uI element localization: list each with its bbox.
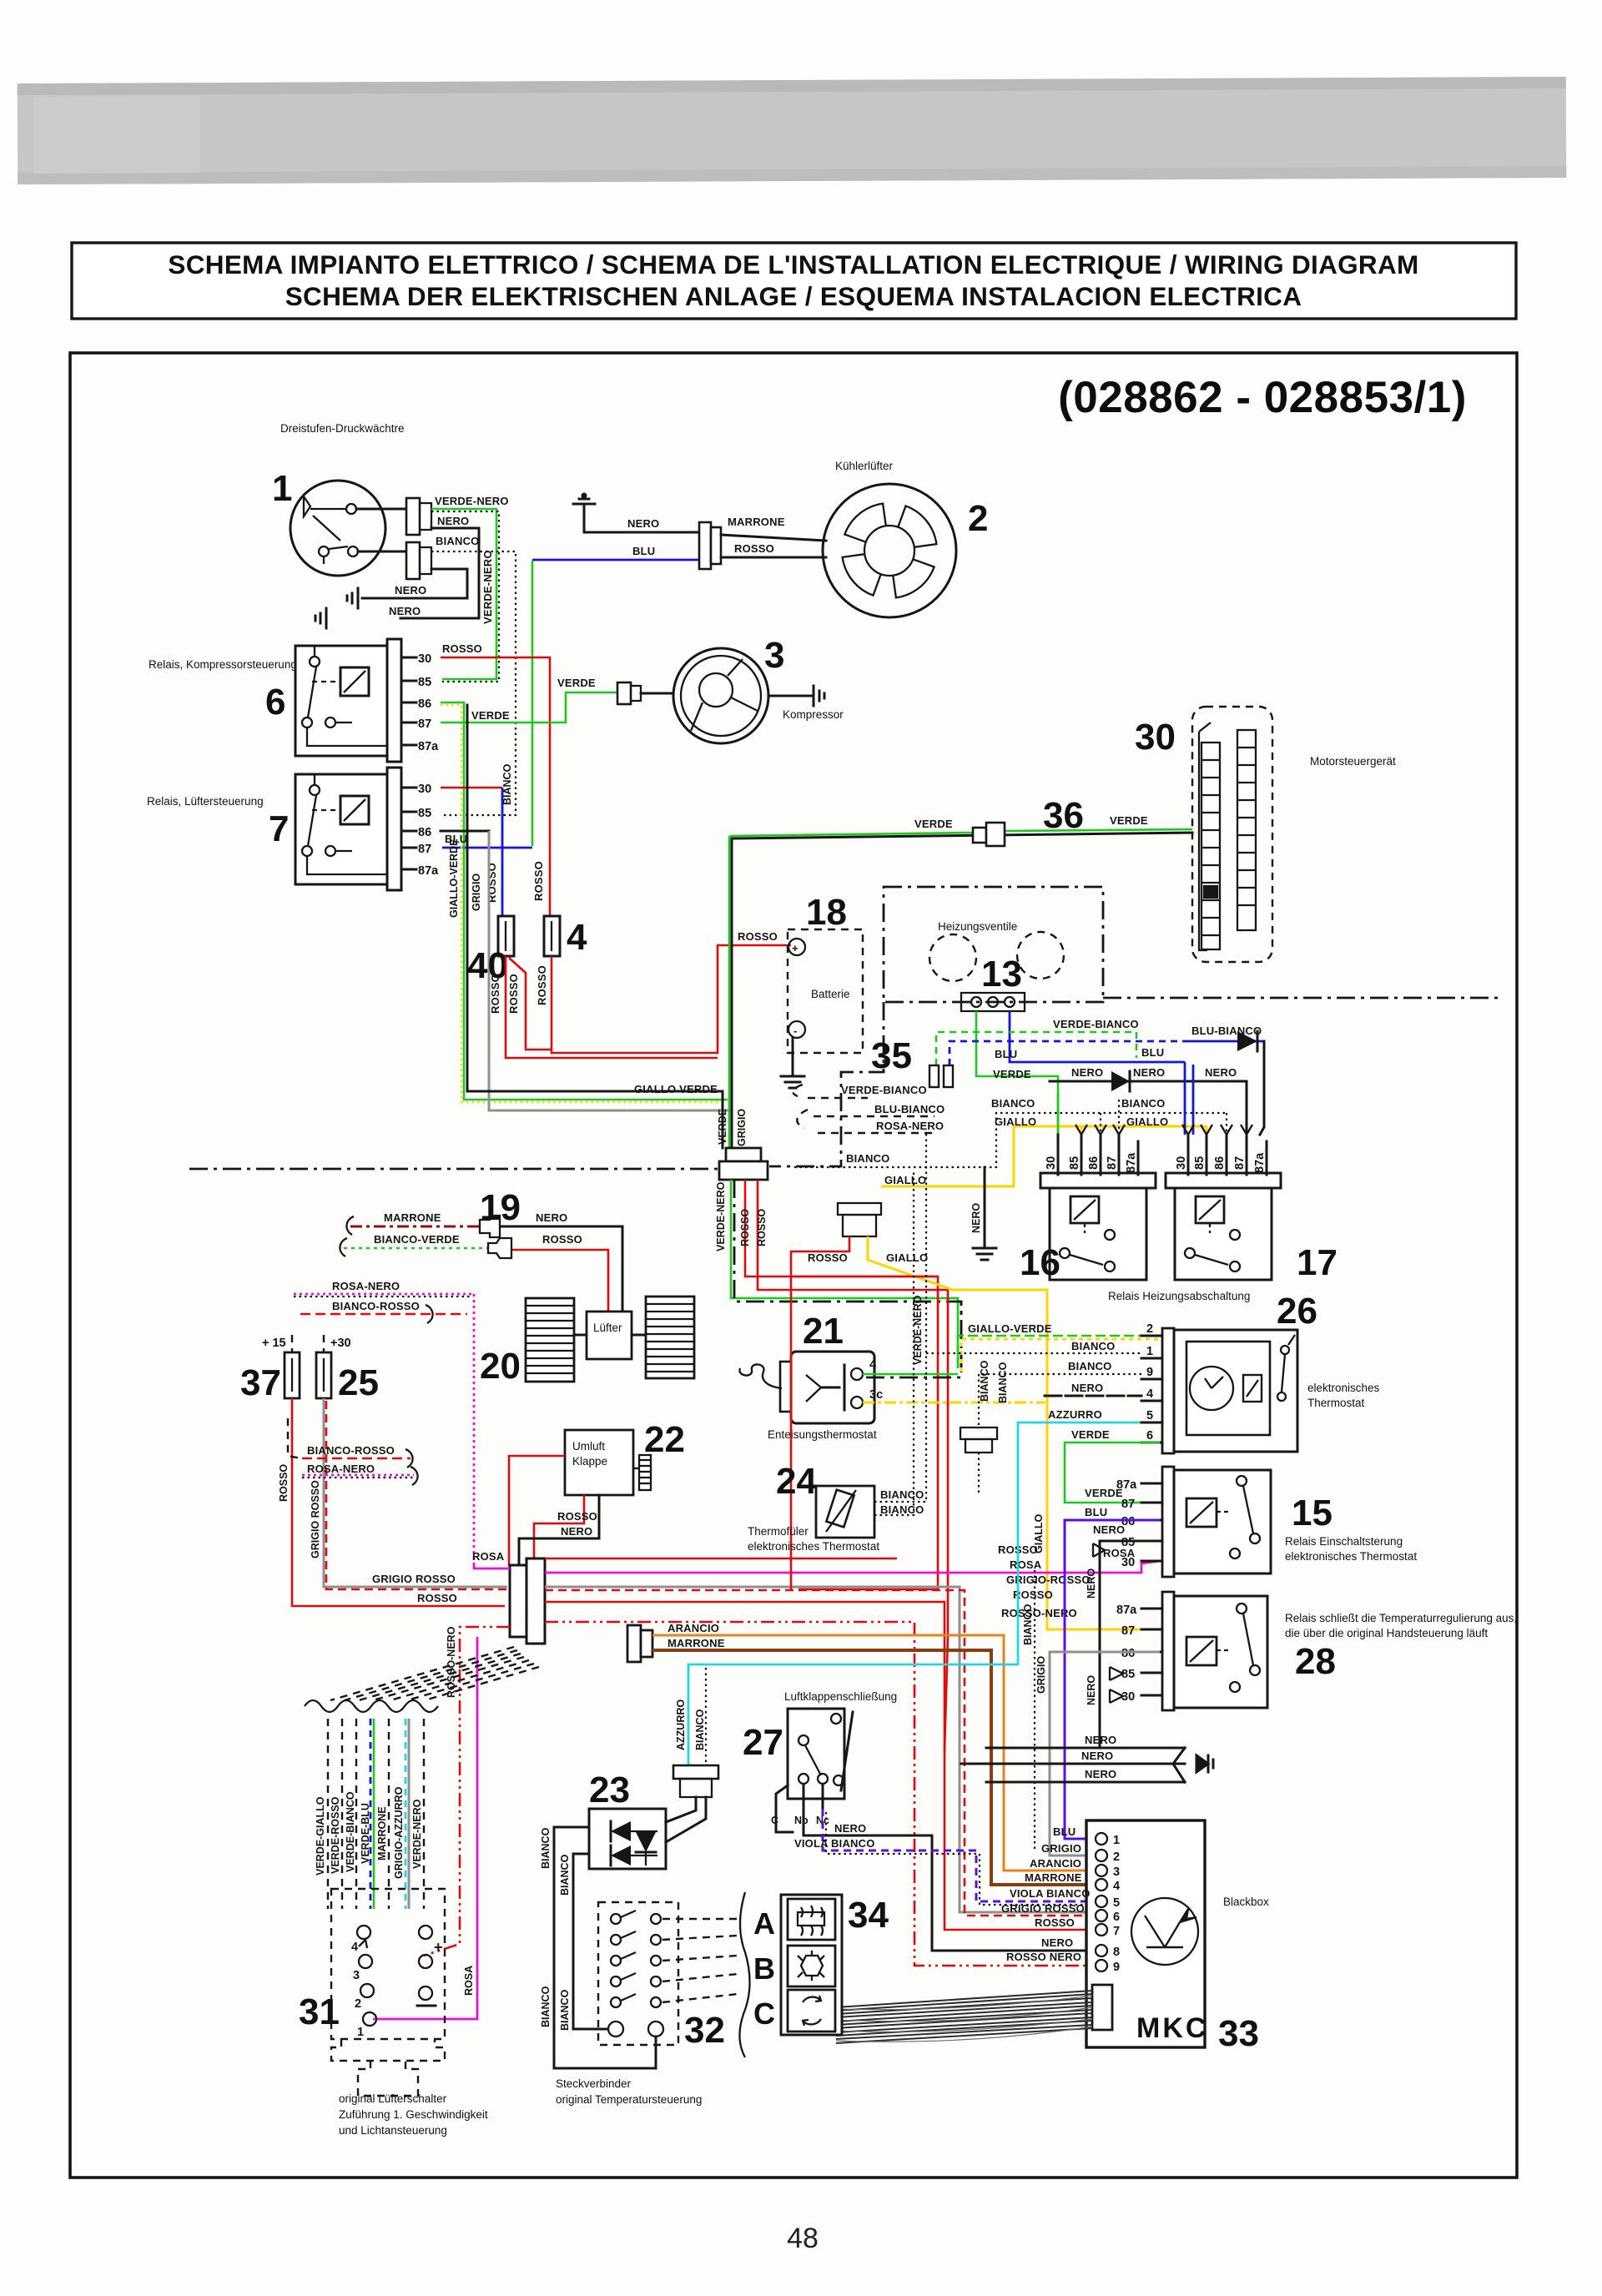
svg-text:ROSSO NERO: ROSSO NERO xyxy=(1006,1951,1081,1963)
svg-text:Relais Einschaltsterung: Relais Einschaltsterung xyxy=(1285,1535,1403,1548)
relay16 pin stubs xyxy=(1058,1135,1138,1175)
svg-text:VERDE-NERO: VERDE-NERO xyxy=(481,550,494,624)
svg-text:4: 4 xyxy=(1113,1880,1120,1893)
svg-text:NERO: NERO xyxy=(1085,1768,1116,1780)
svg-text:ROSSO: ROSSO xyxy=(278,1464,290,1502)
gear (22) xyxy=(633,1455,651,1490)
svg-text:85: 85 xyxy=(1193,1156,1207,1170)
buttons 34 outer xyxy=(781,1895,842,2035)
svg-text:35: 35 xyxy=(871,1035,912,1076)
wire arancio xyxy=(652,1635,1086,1871)
svg-text:GRIGIO: GRIGIO xyxy=(736,1109,748,1146)
svg-text:ROSA: ROSA xyxy=(472,1550,505,1563)
svg-text:18: 18 xyxy=(806,892,847,933)
svg-text:AZZURRO: AZZURRO xyxy=(1048,1408,1102,1421)
connector 19a xyxy=(480,1216,500,1237)
svg-text:A: A xyxy=(753,1906,775,1941)
svg-text:original Lüfterschalter: original Lüfterschalter xyxy=(339,2092,447,2105)
wire nero ground drop xyxy=(984,1167,986,1238)
svg-text:31: 31 xyxy=(299,1991,340,2032)
relay 15 xyxy=(1162,1467,1271,1577)
svg-text:C: C xyxy=(753,1996,775,2031)
relay 16 xyxy=(1040,1173,1156,1280)
svg-text:BLU: BLU xyxy=(1053,1825,1076,1838)
svg-text:87: 87 xyxy=(1121,1498,1135,1511)
svg-text:VERDE-NERO: VERDE-NERO xyxy=(411,1799,423,1869)
svg-text:GIALLO VERDE: GIALLO VERDE xyxy=(634,1083,718,1095)
svg-text:28: 28 xyxy=(1295,1641,1336,1682)
svg-text:VERDE-BIANCO: VERDE-BIANCO xyxy=(841,1084,927,1096)
svg-text:MARRONE: MARRONE xyxy=(1025,1871,1082,1884)
electronic thermostat 26 xyxy=(1162,1328,1297,1453)
blower 20 right cylinder xyxy=(646,1297,694,1378)
wire blu from valve pin3 xyxy=(1010,1011,1185,1062)
wire nero from relay28 85 drop xyxy=(1099,1715,1101,1748)
pressure switch 1 xyxy=(272,468,385,576)
connector block upper (comp1) xyxy=(406,498,420,535)
wire bianco dotted vertical mid xyxy=(1034,1570,1035,1850)
svg-text:GIALLO: GIALLO xyxy=(1033,1514,1045,1553)
svg-text:7: 7 xyxy=(269,808,289,849)
svg-text:9: 9 xyxy=(1146,1366,1153,1379)
svg-text:2: 2 xyxy=(1113,1850,1120,1864)
svg-text:VERDE: VERDE xyxy=(557,677,596,689)
svg-text:NERO: NERO xyxy=(1093,1523,1125,1536)
svg-text:87a: 87a xyxy=(1253,1152,1267,1173)
svg-text:BIANCO: BIANCO xyxy=(559,1854,571,1896)
svg-text:NERO: NERO xyxy=(437,515,469,527)
svg-text:48: 48 xyxy=(787,2223,819,2254)
svg-text:BLU: BLU xyxy=(995,1048,1017,1060)
svg-text:1: 1 xyxy=(357,2026,364,2039)
svg-text:original Temperatursteuerung: original Temperatursteuerung xyxy=(556,2093,702,2106)
svg-text:ROSSO: ROSSO xyxy=(542,1233,582,1246)
svg-text:7: 7 xyxy=(1113,1925,1120,1938)
fuse 35b xyxy=(944,1065,953,1087)
svg-text:86: 86 xyxy=(1087,1156,1101,1170)
svg-text:NERO: NERO xyxy=(627,517,659,530)
svg-text:Batterie: Batterie xyxy=(811,988,850,1000)
svg-text:85: 85 xyxy=(1068,1156,1081,1170)
wire azzurro long xyxy=(688,1422,1160,1765)
wire rosso 2 xyxy=(545,1602,1086,1930)
wire rosso top xyxy=(545,1558,897,1560)
svg-text:27: 27 xyxy=(743,1722,783,1763)
wire rosso from 19 to blower xyxy=(512,1250,608,1312)
wire rosso from connector xyxy=(791,1236,849,1276)
svg-text:ROSSO: ROSSO xyxy=(507,974,520,1014)
svg-text:3: 3 xyxy=(1113,1865,1120,1879)
svg-text:ROSSO: ROSSO xyxy=(442,642,482,655)
fan connector xyxy=(699,522,711,569)
svg-text:VERDE-GIALLO: VERDE-GIALLO xyxy=(315,1796,326,1876)
bundle wire verde-blu xyxy=(370,1719,374,1909)
svg-text:Luftklappenschließung: Luftklappenschließung xyxy=(784,1690,897,1703)
wire nero comp1 down to ground xyxy=(400,528,479,618)
relay 7 pins xyxy=(401,788,416,869)
svg-text:BIANCO: BIANCO xyxy=(979,1360,990,1402)
svg-text:BLU-BIANCO: BLU-BIANCO xyxy=(874,1103,945,1115)
wires rosso below fuses xyxy=(506,956,718,1058)
svg-text:21: 21 xyxy=(803,1311,844,1352)
svg-text:ARANCIO: ARANCIO xyxy=(667,1622,719,1634)
diode block 23 xyxy=(589,1809,666,1869)
wire bianco dotted to 26 pin9 xyxy=(979,1374,1141,1427)
svg-text:3c: 3c xyxy=(869,1388,883,1402)
svg-text:3: 3 xyxy=(764,635,784,676)
svg-text:1: 1 xyxy=(1146,1345,1153,1358)
relay16 pin labels xyxy=(1045,1152,1138,1173)
wire nero from 27 xyxy=(804,1809,1086,1951)
svg-text:BIANCO: BIANCO xyxy=(880,1488,924,1501)
chevron stubs relay28 xyxy=(1110,1667,1123,1680)
svg-text:30: 30 xyxy=(418,783,431,796)
MKC ribbon connector xyxy=(1092,1985,1112,2030)
wire verde-nero comp1 to relay6 pin85 xyxy=(431,509,496,679)
svg-text:+: + xyxy=(792,942,798,954)
svg-text:36: 36 xyxy=(1043,795,1084,836)
svg-text:ROSSO: ROSSO xyxy=(738,930,778,943)
svg-text:ARANCIO: ARANCIO xyxy=(1030,1857,1081,1870)
wire rosso frame around 21 xyxy=(791,1276,938,1278)
svg-text:87: 87 xyxy=(1106,1156,1119,1170)
svg-text:22: 22 xyxy=(644,1419,685,1460)
svg-text:NERO: NERO xyxy=(561,1525,592,1538)
svg-text:VERDE: VERDE xyxy=(1110,814,1148,827)
battery plus terminal xyxy=(788,939,805,955)
svg-text:87a: 87a xyxy=(1116,1604,1137,1617)
svg-text:BIANCO: BIANCO xyxy=(991,1097,1035,1110)
svg-text:1: 1 xyxy=(272,468,292,509)
svg-text:Dreistufen-Druckwächtre: Dreistufen-Druckwächtre xyxy=(280,422,405,435)
small connector (arancio/marrone) xyxy=(627,1625,652,1662)
svg-text:BIANCO: BIANCO xyxy=(1022,1604,1034,1645)
svg-text:BIANCO: BIANCO xyxy=(540,1986,552,2027)
svg-text:SCHEMA DER ELEKTRISCHEN ANLAGE: SCHEMA DER ELEKTRISCHEN ANLAGE / ESQUEMA… xyxy=(285,281,1302,311)
svg-text:GRIGIO ROSSO: GRIGIO ROSSO xyxy=(1001,1902,1085,1915)
big connector (bulkhead) xyxy=(510,1558,545,1644)
svg-text:C: C xyxy=(771,1815,778,1826)
bundle wavy brace xyxy=(305,1700,438,1712)
svg-text:NERO: NERO xyxy=(389,605,421,617)
svg-text:87a: 87a xyxy=(1116,1478,1137,1492)
svg-text:26: 26 xyxy=(1277,1291,1317,1332)
svg-text:ROSA: ROSA xyxy=(463,1966,475,1996)
svg-text:GIALLO-VERDE: GIALLO-VERDE xyxy=(968,1322,1052,1335)
svg-text:ROSSO: ROSSO xyxy=(417,1592,457,1604)
svg-text:GRIGIO: GRIGIO xyxy=(1035,1656,1047,1694)
svg-text:GIALLO: GIALLO xyxy=(1126,1115,1168,1128)
component 24 xyxy=(816,1486,874,1538)
brace right of 32 xyxy=(739,1892,749,2057)
battery ground xyxy=(781,1038,804,1088)
svg-text:Relais Heizungsabschaltung: Relais Heizungsabschaltung xyxy=(1108,1290,1250,1302)
svg-text:VERDE-NERO: VERDE-NERO xyxy=(435,495,509,507)
svg-text:BIANCO: BIANCO xyxy=(1068,1360,1111,1372)
wire nero to 26 pin4 xyxy=(1045,1395,1141,1397)
svg-text:ROSA: ROSA xyxy=(1010,1558,1042,1571)
svg-text:Relais, Lüftersteuerung: Relais, Lüftersteuerung xyxy=(147,795,264,808)
main diagram border xyxy=(70,353,1517,2178)
svg-text:MARRONE: MARRONE xyxy=(384,1211,441,1224)
wire viola bianco dashed xyxy=(823,1809,1086,1901)
svg-text:2: 2 xyxy=(355,1997,361,2011)
svg-text:3: 3 xyxy=(353,1969,360,1982)
heater valve left circle xyxy=(929,934,976,981)
ECU connector 30 xyxy=(1192,707,1272,962)
bundle wire verde-giallo xyxy=(327,1719,329,1909)
svg-text:6: 6 xyxy=(1146,1429,1153,1443)
svg-text:und Lichtansteuerung: und Lichtansteuerung xyxy=(339,2124,447,2137)
26 pin 5 xyxy=(1141,1422,1162,1424)
svg-text:+ 15: + 15 xyxy=(262,1337,286,1350)
svg-text:23: 23 xyxy=(589,1770,630,1810)
svg-text:Blackbox: Blackbox xyxy=(1223,1896,1269,1908)
button C square xyxy=(788,1990,835,2032)
wire nero triple to arrow xyxy=(961,1748,1213,1782)
svg-text:87a: 87a xyxy=(418,864,439,878)
wire rosso relay6 pin30 right xyxy=(441,657,550,916)
svg-text:Enteisungsthermostat: Enteisungsthermostat xyxy=(768,1428,877,1441)
wire 36-line corner down to grommet xyxy=(731,838,733,1150)
svg-text:ROSA: ROSA xyxy=(1103,1547,1136,1559)
wire verde from valve pin1 xyxy=(976,1011,1058,1136)
diode blu-bianco xyxy=(1237,1031,1264,1135)
wire giallo bus xyxy=(881,1126,1207,1186)
compressor connector xyxy=(617,682,631,704)
svg-text:B: B xyxy=(753,1951,775,1986)
fuse 25 xyxy=(316,1352,331,1398)
svg-text:GIALLO: GIALLO xyxy=(995,1115,1036,1128)
svg-text:87: 87 xyxy=(418,843,431,856)
bundle wire verde-bianco xyxy=(355,1719,357,1909)
azzurro connector above 23 xyxy=(666,1765,718,1842)
dashed stubs bianco-rosso / rosa-nero mid xyxy=(288,1418,418,1485)
svg-text:BIANCO: BIANCO xyxy=(540,1827,552,1869)
svg-text:GIALLO: GIALLO xyxy=(886,1251,928,1264)
svg-text:VERDE-BIANCO: VERDE-BIANCO xyxy=(1053,1018,1139,1030)
svg-text:Relais schließt die Temperatur: Relais schließt die Temperaturregulierun… xyxy=(1285,1612,1517,1624)
wire verde from 26 pin6 to relay15 xyxy=(1065,1443,1160,1503)
button A square xyxy=(788,1899,835,1940)
relay17 pin stubs xyxy=(1188,1135,1267,1175)
MKC transistor symbol xyxy=(1131,1898,1198,1965)
MKC blackbox 33 xyxy=(1086,1820,1205,2047)
svg-text:8: 8 xyxy=(1113,1946,1120,1959)
wire blu to fan connector xyxy=(532,559,699,561)
title box xyxy=(72,243,1516,319)
wire rosa into connector left xyxy=(474,1565,510,1568)
svg-text:Heizungsventile: Heizungsventile xyxy=(938,920,1017,933)
compressor 3 xyxy=(673,648,768,743)
wire verde relay6 pin87 to compressor xyxy=(441,692,617,723)
svg-text:4: 4 xyxy=(869,1358,876,1372)
wire rosa-nero dotted drop to connector xyxy=(473,1294,476,1565)
wire giallo-verde relay6 pin86 down xyxy=(441,702,728,1100)
36 inline connector xyxy=(973,828,986,843)
svg-text:86: 86 xyxy=(418,697,431,711)
svg-text:87: 87 xyxy=(1121,1624,1135,1638)
switch 31 outer dashed box xyxy=(331,1889,445,2039)
svg-text:ROSSO: ROSSO xyxy=(739,1209,751,1246)
svg-text:BIANCO: BIANCO xyxy=(846,1152,889,1165)
wire grigio relay7 pin86 down xyxy=(441,830,489,833)
svg-text:BLU: BLU xyxy=(1085,1506,1107,1518)
svg-text:Motorsteuergerät: Motorsteuergerät xyxy=(1310,755,1396,768)
svg-text:BIANCO-ROSSO: BIANCO-ROSSO xyxy=(332,1300,420,1312)
svg-text:VERDE: VERDE xyxy=(993,1068,1031,1080)
svg-text:6: 6 xyxy=(1113,1911,1120,1924)
svg-text:GRIGIO-AZZURRO: GRIGIO-AZZURRO xyxy=(393,1786,405,1879)
wire bianco dotted beside azzurro xyxy=(705,1668,707,1765)
svg-text:-: - xyxy=(793,1025,797,1037)
wire rosso to 22 xyxy=(509,1456,565,1566)
svg-text:6: 6 xyxy=(265,682,285,723)
svg-text:NERO: NERO xyxy=(1086,1675,1097,1705)
svg-text:(028862 - 028853/1): (028862 - 028853/1) xyxy=(1058,373,1467,422)
svg-text:GRIGIO ROSSO: GRIGIO ROSSO xyxy=(310,1480,321,1558)
svg-text:SCHEMA IMPIANTO ELETTRICO / SC: SCHEMA IMPIANTO ELETTRICO / SCHEMA DE L'… xyxy=(168,249,1418,279)
wire comp1 to connector xyxy=(356,508,406,511)
svg-text:ROSA-NERO: ROSA-NERO xyxy=(876,1120,944,1132)
svg-text:30: 30 xyxy=(1175,1156,1188,1170)
wires 23 to 32 bianco xyxy=(554,1827,656,2068)
svg-text:25: 25 xyxy=(338,1362,379,1403)
svg-text:Kühlerlüfter: Kühlerlüfter xyxy=(835,460,894,472)
svg-text:MARRONE: MARRONE xyxy=(667,1637,725,1649)
svg-text:86: 86 xyxy=(418,826,431,839)
radiator fan 2 xyxy=(823,484,956,617)
svg-text:Kompressor: Kompressor xyxy=(783,708,844,721)
pin dips relay17 xyxy=(1185,1062,1247,1135)
wire bianco dotted to 26 pin1 xyxy=(926,1352,1141,1354)
svg-text:ROSSO: ROSSO xyxy=(536,965,548,1005)
svg-text:VERDE-NERO: VERDE-NERO xyxy=(715,1181,727,1251)
wires connector to fan 2 xyxy=(721,535,826,541)
svg-text:BLU: BLU xyxy=(445,833,467,845)
svg-text:BIANCO: BIANCO xyxy=(880,1503,924,1516)
MKC pins xyxy=(1096,1833,1107,1971)
relay 6 xyxy=(295,639,401,762)
svg-text:4: 4 xyxy=(351,1941,358,1954)
battery minus terminal xyxy=(788,1021,805,1038)
wire blu relay7 pin87 xyxy=(442,847,532,849)
svg-text:85: 85 xyxy=(418,676,431,689)
svg-text:ROSSO: ROSSO xyxy=(489,974,501,1014)
svg-text:elektronisches: elektronisches xyxy=(1307,1382,1380,1394)
26 pin 4 xyxy=(1141,1400,1162,1402)
svg-text:ROSSO: ROSSO xyxy=(808,1251,848,1264)
svg-text:Klappe: Klappe xyxy=(572,1455,607,1468)
bundle wire grigio-azzurro xyxy=(406,1719,409,1909)
svg-text:34: 34 xyxy=(848,1895,889,1936)
svg-text:BLU: BLU xyxy=(632,545,655,557)
wire rosso-nero down-left xyxy=(424,1627,510,1956)
header gray bar xyxy=(18,77,1567,184)
wire nero to fan connector xyxy=(584,531,699,534)
svg-text:BIANCO: BIANCO xyxy=(1121,1097,1165,1110)
svg-text:AZZURRO: AZZURRO xyxy=(675,1699,687,1750)
wire black companion giallo-verde xyxy=(467,705,723,1148)
ground fan top xyxy=(573,494,595,532)
svg-text:30: 30 xyxy=(1045,1156,1058,1170)
svg-text:BLU: BLU xyxy=(1141,1046,1164,1059)
fuse 4 xyxy=(544,916,560,956)
wire marrone dashed to 19 xyxy=(346,1216,480,1235)
wire nero lower comp1 to ground xyxy=(362,569,467,598)
blower 20 left cylinder xyxy=(526,1298,574,1382)
svg-text:ROSSO: ROSSO xyxy=(734,542,774,555)
svg-text:15: 15 xyxy=(1292,1493,1332,1533)
wire bianco dotted from 24 xyxy=(874,1130,926,1502)
svg-text:9: 9 xyxy=(1113,1961,1120,1974)
ground 1 (comp1) xyxy=(347,588,358,608)
wire rosso from fuse37 down xyxy=(292,1398,505,1606)
svg-text:No: No xyxy=(794,1815,809,1826)
wire bianco dotted 2 from 24 xyxy=(874,1170,914,1515)
ground (nero bus) xyxy=(973,1238,996,1260)
svg-text:20: 20 xyxy=(480,1346,521,1387)
wires below grommet xyxy=(731,1180,958,1368)
compressor ground xyxy=(768,686,824,706)
wire bianco comp1 to relay7 pin85 xyxy=(431,551,516,815)
ribbon cable xyxy=(836,1991,1092,2043)
svg-text:BIANCO: BIANCO xyxy=(694,1709,706,1750)
svg-text:13: 13 xyxy=(981,954,1022,994)
svg-text:GRIGIO: GRIGIO xyxy=(471,874,482,911)
svg-text:die über die original Handsteu: die über die original Handsteuerung läuf… xyxy=(1285,1627,1488,1639)
umluft klappe 22 box xyxy=(565,1430,633,1495)
svg-text:NERO: NERO xyxy=(1071,1066,1103,1079)
svg-text:NERO: NERO xyxy=(1205,1066,1237,1079)
svg-text:VERDE: VERDE xyxy=(914,818,953,830)
svg-text:NERO: NERO xyxy=(834,1822,866,1835)
26 pin 2 xyxy=(1141,1335,1162,1337)
wire blu-marked rosso down to fuse40 xyxy=(501,788,504,916)
switch 32 dashed box xyxy=(598,1902,678,2045)
svg-text:87a: 87a xyxy=(1125,1152,1138,1173)
svg-text:ROSSO: ROSSO xyxy=(532,861,545,901)
bulkhead dash-dot long line xyxy=(189,1168,719,1171)
relay 6 pins xyxy=(401,657,416,745)
svg-text:BIANCO-ROSSO: BIANCO-ROSSO xyxy=(307,1444,395,1457)
micro switch 27 xyxy=(776,1709,853,1832)
svg-text:BIANCO: BIANCO xyxy=(436,535,479,547)
svg-text:ROSSO: ROSSO xyxy=(756,1209,768,1246)
fuse 35a xyxy=(929,1065,939,1087)
bundle wire verde-nero xyxy=(423,1719,425,1909)
svg-text:+30: +30 xyxy=(330,1337,351,1350)
svg-text:2: 2 xyxy=(1146,1322,1153,1336)
svg-text:Relais, Kompressorsteuerung: Relais, Kompressorsteuerung xyxy=(149,658,297,671)
svg-text:5: 5 xyxy=(1113,1896,1120,1910)
svg-text:GIALLO: GIALLO xyxy=(884,1174,926,1186)
wire blu-bianco to diode xyxy=(950,1041,1186,1065)
svg-text:BLU-BIANCO: BLU-BIANCO xyxy=(1191,1025,1262,1037)
wire 36 line verde to ECU xyxy=(732,833,1192,838)
svg-text:30: 30 xyxy=(418,652,431,666)
svg-text:30: 30 xyxy=(1135,717,1176,758)
wire blu to 15 pin86 xyxy=(1065,1520,1160,1839)
svg-text:+: + xyxy=(434,1939,443,1956)
switch 32 pins xyxy=(608,1911,663,2037)
svg-text:85: 85 xyxy=(418,807,431,820)
switch 31 inner detail xyxy=(351,1926,443,2039)
svg-text:NERO: NERO xyxy=(1086,1568,1097,1599)
wire bianco dotted bus xyxy=(794,1113,1227,1167)
svg-text:Lüfter: Lüfter xyxy=(593,1322,622,1334)
thermostat 21 xyxy=(739,1352,874,1423)
